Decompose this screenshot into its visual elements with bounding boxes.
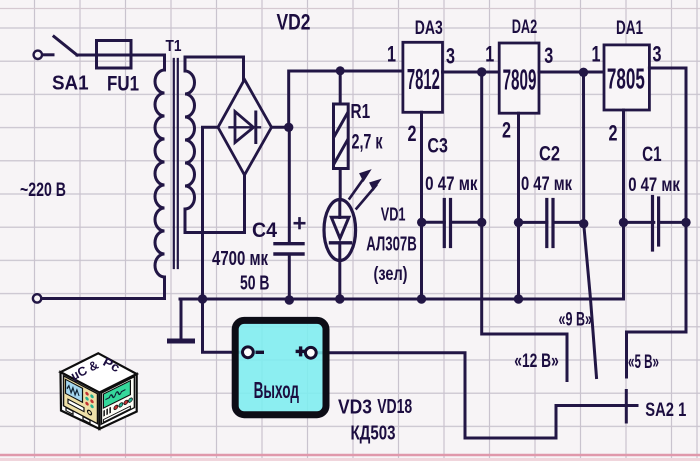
wire DA2 pin2 down	[517, 113, 520, 299]
bridge rectifier VD2	[218, 80, 272, 176]
wire plus node down to C4	[288, 127, 291, 242]
input terminal bottom	[33, 294, 165, 302]
switch SA1	[34, 37, 77, 60]
svg-text:2,7 к: 2,7 к	[352, 131, 383, 154]
wire secondary bottom to bridge bottom vertex	[185, 231, 245, 234]
wire FU1 to T1 primary	[131, 55, 165, 70]
svg-text:DA1: DA1	[616, 18, 643, 39]
wire T1 primary bottom to input terminal	[163, 277, 166, 299]
switch SA2.1 pole contact	[625, 391, 628, 423]
wire 9V tap down from DA2 output	[584, 72, 597, 378]
capacitor C3	[422, 200, 482, 247]
regulator DA1 box	[604, 45, 649, 110]
svg-text:1: 1	[387, 42, 396, 67]
svg-text:R1: R1	[351, 100, 371, 123]
svg-text:T1: T1	[166, 38, 182, 55]
svg-text:C3: C3	[427, 135, 448, 158]
svg-text:DA3: DA3	[415, 18, 443, 39]
svg-text:VD1: VD1	[381, 204, 406, 225]
wire C4 to ground rail	[288, 254, 291, 299]
svg-text:2: 2	[502, 117, 511, 142]
wire ground rail to output minus	[203, 299, 241, 352]
wire DA1 pin2 down	[622, 110, 625, 222]
svg-text:7812: 7812	[407, 64, 440, 96]
svg-text:~220 В: ~220 В	[20, 180, 66, 201]
svg-text:C1: C1	[642, 143, 662, 166]
logo cube µC & Pc	[61, 353, 137, 429]
wire 12V tap down from DA3 output	[482, 72, 567, 381]
ground symbol	[170, 299, 193, 341]
svg-text:50 В: 50 В	[240, 273, 270, 295]
fuse FU1	[97, 41, 132, 69]
svg-text:FU1: FU1	[107, 73, 139, 96]
svg-text:КД503: КД503	[351, 423, 396, 445]
capacitor C4	[275, 244, 303, 254]
svg-text:VD18: VD18	[377, 396, 412, 418]
wire SA1 to FU1	[77, 54, 97, 57]
svg-text:1: 1	[592, 42, 601, 67]
transformer T1 secondary winding	[185, 57, 195, 233]
svg-text:3: 3	[653, 41, 662, 66]
resistor R1	[334, 104, 349, 169]
svg-text:3: 3	[446, 44, 455, 69]
svg-text:Выход: Выход	[254, 377, 300, 403]
wire secondary top to bridge	[185, 57, 244, 80]
LED emission arrows	[350, 170, 381, 209]
capacitor C1	[624, 197, 687, 251]
svg-text:0 47 мк: 0 47 мк	[628, 175, 680, 196]
svg-text:SA2 1: SA2 1	[645, 399, 686, 421]
output block Выход	[235, 320, 326, 414]
LED VD1	[324, 200, 356, 261]
C4 plus sign	[295, 218, 304, 228]
svg-text:«5 В»: «5 В»	[628, 351, 659, 373]
wire R1 to VD1	[339, 169, 342, 201]
wire VD1 to ground rail	[338, 261, 341, 300]
svg-text:(зел): (зел)	[374, 263, 408, 285]
capacitor C2	[519, 200, 584, 247]
svg-text:1: 1	[485, 42, 494, 67]
wire DA1 output to 5V tap	[627, 68, 687, 377]
svg-text:C4: C4	[252, 218, 277, 242]
svg-text:7805: 7805	[607, 63, 645, 95]
svg-text:«9 В»: «9 В»	[559, 309, 593, 331]
ground rail	[180, 222, 624, 299]
svg-text:DA2: DA2	[512, 17, 538, 38]
svg-text:2: 2	[609, 120, 618, 145]
svg-text:VD2: VD2	[277, 10, 311, 35]
svg-text:«12 В»: «12 В»	[514, 350, 559, 372]
svg-text:C2: C2	[539, 143, 560, 166]
wire bridge bottom vertex down	[243, 175, 246, 233]
transformer T1 core	[174, 59, 178, 268]
svg-text:7809: 7809	[503, 64, 537, 96]
wire output plus to SA2	[318, 353, 637, 438]
svg-text:АЛ307В: АЛ307В	[366, 234, 417, 256]
wire plus node up to top rail	[289, 71, 403, 127]
svg-text:0 47 мк: 0 47 мк	[521, 174, 572, 195]
svg-text:SA1: SA1	[52, 71, 89, 94]
svg-text:2: 2	[408, 121, 417, 146]
regulator DA3 box	[403, 42, 443, 112]
svg-text:VD3: VD3	[338, 397, 372, 419]
wire DA2 out to DA1 in	[539, 71, 604, 74]
svg-text:0 47 мк: 0 47 мк	[425, 174, 478, 195]
transformer T1 primary winding	[155, 70, 165, 277]
wire R1 top	[339, 71, 342, 104]
wire bridge plus node	[272, 126, 289, 129]
svg-text:4700 мк: 4700 мк	[212, 248, 269, 270]
wire bridge minus to ground rail	[203, 127, 219, 298]
svg-text:3: 3	[544, 43, 553, 68]
regulator DA2 box	[499, 43, 539, 113]
wire DA3 pin2 down	[420, 112, 423, 299]
wire DA3 out to DA2 in	[443, 71, 500, 74]
